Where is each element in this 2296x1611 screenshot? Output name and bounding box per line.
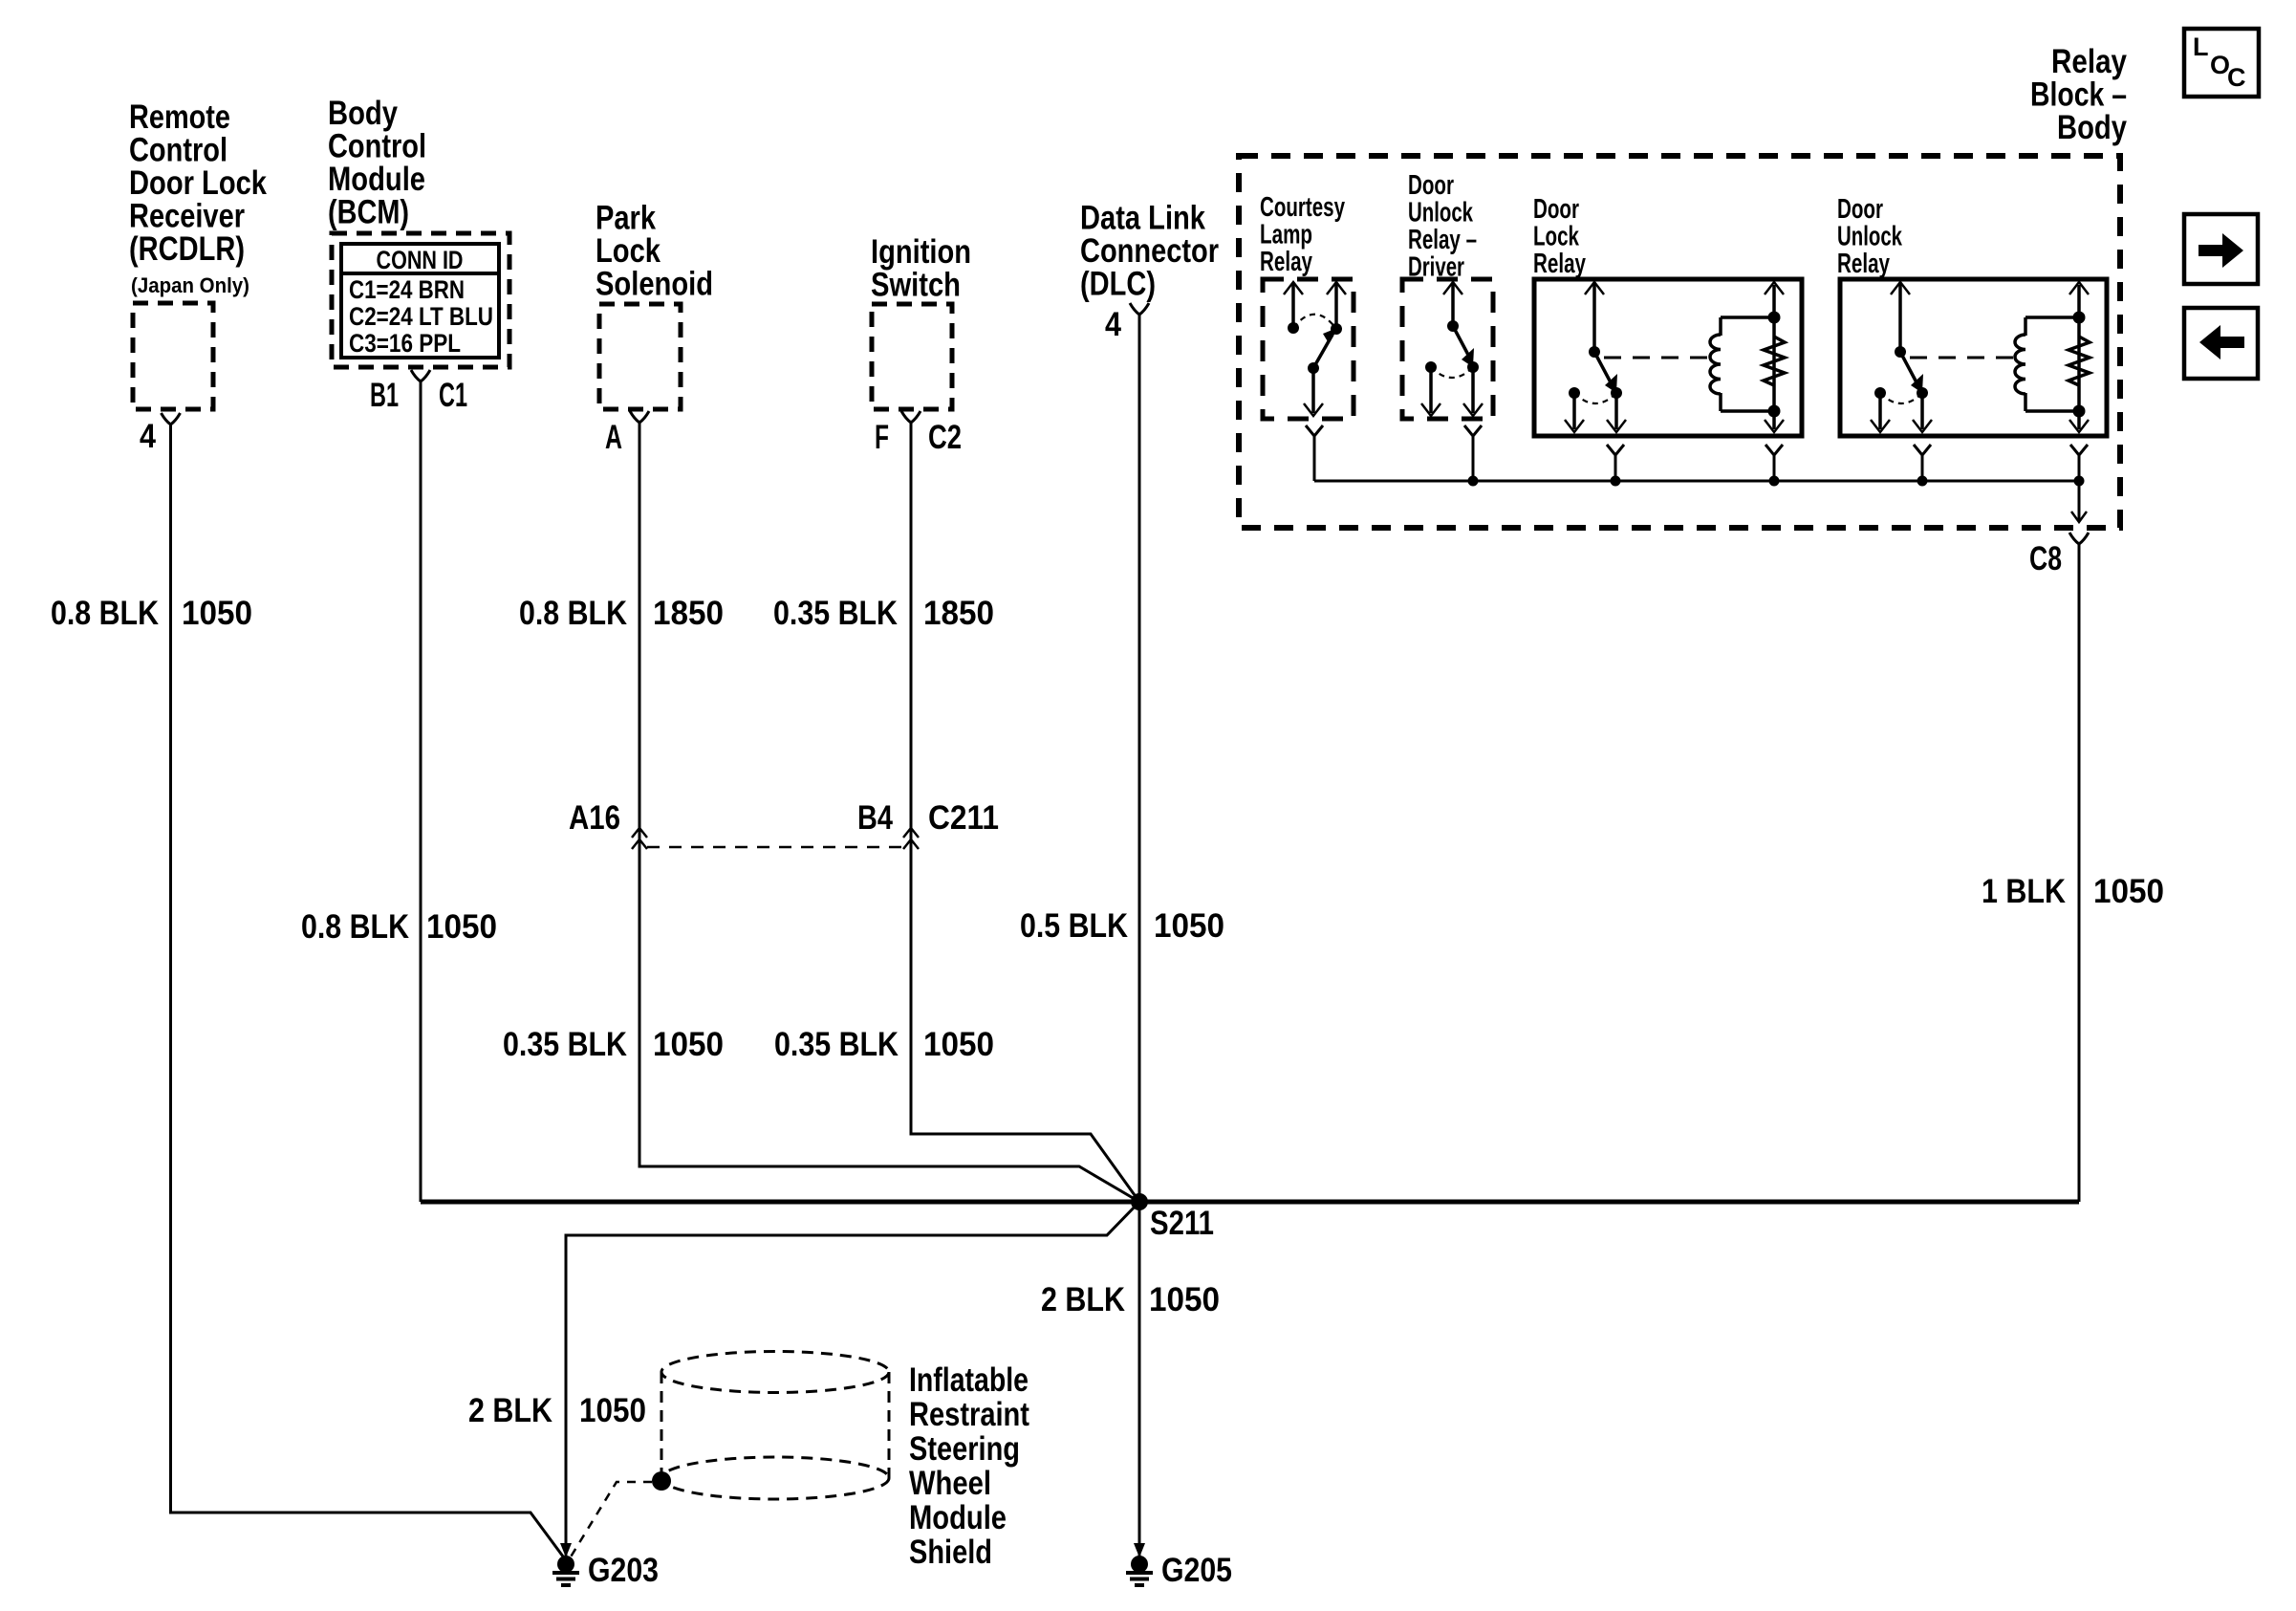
svg-text:(BCM): (BCM): [328, 194, 409, 231]
svg-text:0.35 BLK: 0.35 BLK: [773, 595, 898, 632]
svg-text:0.8 BLK: 0.8 BLK: [519, 595, 627, 632]
svg-text:1050: 1050: [923, 1026, 994, 1063]
svg-text:Control: Control: [328, 128, 426, 165]
svg-text:Relay: Relay: [1533, 249, 1586, 279]
svg-text:C1=24 BRN: C1=24 BRN: [349, 275, 465, 304]
svg-text:Body: Body: [2057, 109, 2127, 146]
svg-text:C1: C1: [439, 377, 467, 414]
svg-text:1050: 1050: [1149, 1281, 1220, 1318]
svg-text:Steering: Steering: [909, 1430, 1020, 1468]
svg-text:B4: B4: [857, 799, 893, 837]
svg-text:Block –: Block –: [2030, 76, 2127, 114]
svg-text:F: F: [875, 419, 889, 456]
svg-text:1050: 1050: [1154, 907, 1224, 945]
svg-text:(RCDLR): (RCDLR): [129, 230, 245, 268]
svg-text:1050: 1050: [579, 1392, 646, 1429]
svg-text:Control: Control: [129, 132, 227, 169]
svg-text:Remote: Remote: [129, 98, 230, 136]
svg-text:Inflatable: Inflatable: [909, 1361, 1029, 1399]
svg-text:Receiver: Receiver: [129, 198, 245, 235]
svg-text:2 BLK: 2 BLK: [468, 1392, 552, 1429]
svg-text:G205: G205: [1161, 1552, 1232, 1589]
svg-text:Relay: Relay: [1837, 249, 1890, 279]
svg-text:4: 4: [1105, 306, 1121, 343]
svg-text:G203: G203: [588, 1552, 659, 1589]
svg-text:1050: 1050: [182, 595, 252, 632]
svg-text:Door: Door: [1837, 194, 1883, 225]
svg-text:Data Link: Data Link: [1080, 200, 1205, 237]
svg-text:Relay: Relay: [1260, 247, 1312, 277]
svg-text:C3=16 PPL: C3=16 PPL: [349, 329, 461, 358]
svg-text:4: 4: [140, 418, 156, 455]
svg-text:A16: A16: [569, 799, 620, 837]
svg-text:1850: 1850: [653, 595, 724, 632]
svg-text:Lock: Lock: [596, 232, 661, 270]
svg-text:Shield: Shield: [909, 1534, 992, 1571]
svg-text:Lock: Lock: [1533, 222, 1580, 252]
svg-text:Solenoid: Solenoid: [596, 266, 713, 303]
svg-text:Door Lock: Door Lock: [129, 164, 267, 202]
svg-text:Unlock: Unlock: [1837, 222, 1903, 252]
svg-text:Module: Module: [909, 1499, 1007, 1536]
svg-text:1050: 1050: [2093, 873, 2164, 910]
svg-text:2 BLK: 2 BLK: [1041, 1281, 1125, 1318]
svg-text:(DLC): (DLC): [1080, 266, 1156, 303]
svg-text:Module: Module: [328, 161, 425, 198]
svg-text:S211: S211: [1150, 1205, 1214, 1242]
svg-text:A: A: [605, 419, 622, 456]
svg-text:C8: C8: [2029, 540, 2062, 577]
svg-text:Relay –: Relay –: [1408, 225, 1477, 255]
svg-text:0.8 BLK: 0.8 BLK: [51, 595, 159, 632]
svg-text:1050: 1050: [426, 908, 497, 946]
svg-text:Restraint: Restraint: [909, 1396, 1029, 1433]
svg-text:Courtesy: Courtesy: [1260, 192, 1345, 223]
svg-text:Door: Door: [1408, 170, 1454, 201]
svg-text:C: C: [2227, 63, 2246, 92]
svg-text:Switch: Switch: [871, 267, 961, 304]
svg-text:CONN ID: CONN ID: [377, 246, 464, 274]
svg-text:Park: Park: [596, 200, 656, 237]
svg-text:Door: Door: [1533, 194, 1579, 225]
svg-text:B1: B1: [370, 377, 399, 414]
svg-text:Wheel: Wheel: [909, 1465, 991, 1502]
svg-text:C211: C211: [928, 799, 999, 837]
svg-text:1 BLK: 1 BLK: [1982, 873, 2066, 910]
svg-text:1050: 1050: [653, 1026, 724, 1063]
svg-text:C2: C2: [928, 419, 962, 456]
svg-text:(Japan Only): (Japan Only): [131, 273, 249, 297]
svg-text:Ignition: Ignition: [871, 233, 971, 271]
svg-text:Relay: Relay: [2051, 43, 2127, 80]
svg-text:L: L: [2193, 33, 2209, 61]
svg-text:Connector: Connector: [1080, 232, 1219, 270]
svg-text:Lamp: Lamp: [1260, 220, 1312, 250]
svg-text:C2=24 LT BLU: C2=24 LT BLU: [349, 302, 493, 331]
svg-text:0.5 BLK: 0.5 BLK: [1020, 907, 1128, 945]
svg-text:1850: 1850: [923, 595, 994, 632]
svg-text:0.35 BLK: 0.35 BLK: [774, 1026, 899, 1063]
svg-text:0.8 BLK: 0.8 BLK: [301, 908, 409, 946]
svg-text:Body: Body: [328, 95, 398, 132]
svg-text:0.35 BLK: 0.35 BLK: [503, 1026, 627, 1063]
svg-text:Unlock: Unlock: [1408, 198, 1474, 229]
